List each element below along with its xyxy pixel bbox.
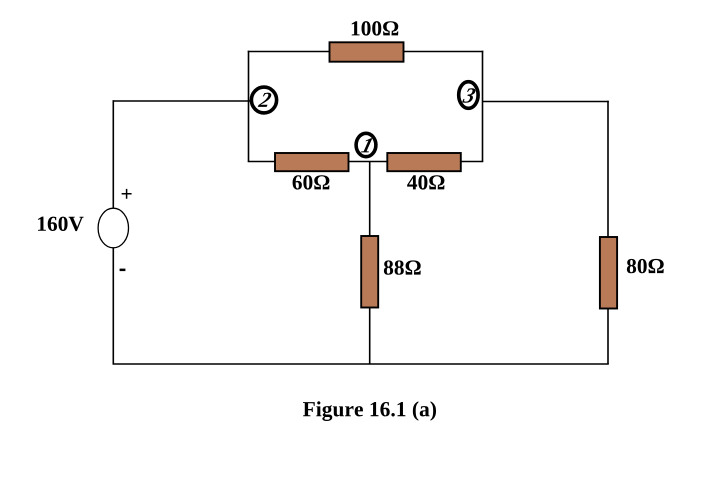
wire: right horizontal from node 3	[483, 101, 609, 103]
resistor R1 100 ohm (top)	[330, 42, 404, 61]
wire: inner box left vertical	[248, 51, 250, 162]
caption Figure 16.1 (a)	[303, 401, 436, 421]
wire: middle horizontal through 60-40 resistors	[248, 161, 484, 163]
wire: bottom horizontal	[113, 363, 609, 365]
resistor R4 88 ohm (middle vertical)	[361, 236, 378, 308]
value label 80 ohm	[627, 259, 664, 273]
wire: outer right vertical	[607, 101, 609, 364]
wire: outer left vertical (source branch)	[112, 100, 114, 364]
node 3	[459, 82, 478, 109]
value label 160V	[38, 217, 84, 232]
value label 88 ohm	[384, 260, 421, 274]
resistor R2 60 ohm	[275, 153, 349, 171]
minus polarity mark	[120, 269, 126, 272]
value label 40 ohm	[407, 175, 444, 189]
node 1	[356, 133, 376, 156]
value label 100 ohm	[352, 21, 399, 35]
resistor R3 40 ohm	[387, 153, 461, 171]
wire: inner box right vertical	[482, 51, 484, 162]
resistor R5 80 ohm (right vertical)	[600, 237, 617, 309]
plus polarity mark	[122, 189, 132, 199]
node 2	[251, 87, 276, 113]
wire: left horizontal to node 2	[113, 100, 251, 102]
voltage source V1 160V (ellipse)	[98, 208, 128, 248]
wire: inner box top horizontal	[248, 51, 484, 53]
wire: middle vertical below node 1	[369, 162, 371, 365]
value label 60 ohm	[293, 175, 330, 189]
